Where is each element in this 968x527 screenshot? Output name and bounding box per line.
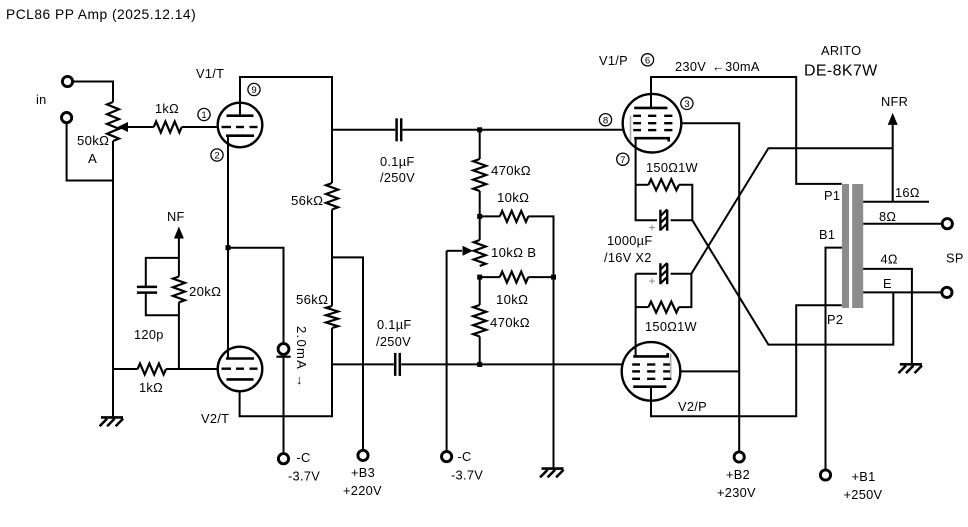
label 10kΩ B [491, 245, 536, 260]
svg-text:P1: P1 [824, 188, 840, 203]
pentode V1/P [623, 94, 682, 153]
wire V1/P cathode down [635, 138, 637, 185]
svg-text:ARITO: ARITO [821, 43, 861, 58]
svg-text:470kΩ: 470kΩ [491, 163, 531, 178]
pin 9 [248, 83, 260, 96]
pin 7 [617, 153, 629, 166]
wire ground rail to R2 [113, 368, 138, 370]
label +B2 +230V [717, 467, 756, 500]
svg-text:-3.7V: -3.7V [451, 468, 483, 483]
resistor 56kΩ (V1/T plate load) [326, 183, 338, 210]
svg-text:9: 9 [251, 85, 256, 96]
potentiometer 10kΩ B (balance) [474, 240, 486, 266]
pin 1 [198, 108, 210, 121]
wire 56k bottom to V2/T plate [240, 328, 332, 416]
svg-text:10kΩ B: 10kΩ B [491, 245, 536, 260]
svg-text:230V: 230V [675, 59, 706, 74]
wire V2 plate node to C2 [332, 363, 394, 365]
label 0.1µF /250V [380, 154, 415, 185]
svg-text:P2: P2 [827, 312, 843, 327]
wiper arrow of VR1 [118, 122, 154, 132]
pin 8 [599, 114, 611, 127]
svg-text:PCL86 PP Amp (2025.12.14): PCL86 PP Amp (2025.12.14) [6, 7, 196, 22]
label ARITO DE-8K7W [804, 43, 878, 80]
pentode V2/P [622, 342, 681, 401]
terminal -C (output bias) [442, 452, 452, 462]
svg-text:-C: -C [458, 449, 472, 464]
terminal +B2 [734, 452, 744, 462]
svg-text:1000µF: 1000µF [607, 233, 652, 248]
wire volume bottom to ground [112, 141, 114, 418]
label 150Ω1W [646, 160, 699, 175]
label 10kΩ [497, 190, 529, 205]
wire wiper to -C terminal [446, 251, 448, 452]
terminal SP return [942, 287, 952, 297]
resistor 56kΩ (V2/T plate load) [326, 306, 338, 328]
svg-text:3: 3 [684, 99, 689, 110]
label V1/T [196, 66, 224, 81]
wire 56k junction to +B3 [332, 210, 363, 451]
svg-text:NF: NF [167, 209, 185, 224]
wire C2 to V2/P grid [401, 363, 623, 365]
label V1/P [599, 53, 628, 68]
label 1kΩ [155, 101, 179, 116]
label 56kΩ [296, 292, 328, 307]
label 50kΩ A [77, 133, 109, 166]
node C2/470k junction [477, 362, 482, 367]
resistor R2 1kΩ [138, 364, 166, 375]
label 470kΩ [490, 315, 530, 330]
label 120p [134, 327, 164, 342]
wire V1 plate node to C1 [332, 129, 395, 131]
svg-text:20kΩ: 20kΩ [189, 284, 221, 299]
svg-text:7: 7 [620, 155, 625, 166]
transformer ARITO DE-8K7W core [842, 184, 863, 308]
svg-text:DE-8K7W: DE-8K7W [804, 63, 878, 80]
label -C -3.7V [451, 449, 483, 483]
svg-text:-C: -C [297, 450, 311, 465]
wire meter to -C terminal [283, 357, 285, 454]
wire R2 to V2/T grid [166, 368, 218, 370]
wire V1/T plate to 56k node [240, 77, 332, 183]
label P2 [827, 312, 843, 327]
triode V1/T [218, 103, 263, 148]
svg-text:+B1: +B1 [852, 469, 876, 484]
svg-text:1kΩ: 1kΩ [155, 101, 179, 116]
svg-text:+230V: +230V [717, 485, 756, 500]
svg-text:1kΩ: 1kΩ [139, 380, 163, 395]
resistor 470kΩ (V1/P grid) [473, 130, 486, 240]
label 4Ω [881, 252, 898, 267]
label NFR [881, 94, 908, 109]
svg-text:2: 2 [214, 151, 219, 162]
wire V1/P screen to +B2 bus [681, 123, 739, 452]
capacitor 120p (NFB) [137, 258, 179, 315]
resistor 470kΩ (V2/P grid) [473, 277, 486, 364]
wire B1 tap to +B1 terminal [826, 248, 843, 470]
svg-text:+B3: +B3 [351, 465, 375, 480]
terminal -C (driver bias) [278, 454, 288, 464]
label 470kΩ [491, 163, 531, 178]
wire 4Ω tap to ground [863, 269, 912, 364]
NFR arrow [888, 113, 898, 202]
resistor 10kΩ (upper) [480, 211, 554, 277]
label 2.0mA [294, 326, 309, 389]
label -C -3.7V [288, 450, 320, 484]
svg-text:+220V: +220V [343, 483, 382, 498]
label 150Ω1W [645, 319, 698, 334]
label 8Ω [879, 209, 896, 224]
ground (input) [100, 417, 124, 426]
wire V2/P cathode to 16Ω tap (cross diagonal) [691, 148, 892, 274]
svg-text:150Ω1W: 150Ω1W [646, 160, 699, 175]
wire V2/P cathode up [635, 307, 637, 356]
svg-text:+B2: +B2 [726, 467, 750, 482]
resistor 150Ω1W (V1/P cathode) [636, 179, 693, 220]
capacitor C2 0.1µF/250V [395, 353, 400, 376]
svg-text:V1/T: V1/T [196, 66, 224, 81]
label 230V 30mA [675, 59, 760, 74]
wire common cathodes [228, 136, 284, 359]
node 470k/10k [477, 214, 482, 219]
svg-text:470kΩ: 470kΩ [490, 315, 530, 330]
svg-text:/16V X2: /16V X2 [604, 250, 652, 265]
wire J2 to volume bottom [67, 122, 113, 180]
meter jack 2.0mA [276, 344, 290, 357]
svg-text:150Ω1W: 150Ω1W [645, 319, 698, 334]
capacitor 1000µF (V2/P cathode bypass) [636, 263, 692, 307]
svg-text:56kΩ: 56kΩ [296, 292, 328, 307]
ground (bias network) [540, 469, 564, 478]
label + polarity [649, 274, 656, 288]
capacitor 1000µF (V1/P cathode bypass) [636, 185, 693, 231]
svg-text:NFR: NFR [881, 94, 908, 109]
wire 16Ω tap [863, 201, 929, 203]
resistor R1 1kΩ [154, 122, 182, 133]
potentiometer VR1 50kΩ A [107, 102, 119, 141]
resistor 150Ω1W (V2/P cathode) [636, 274, 692, 313]
NF feedback arrow [174, 227, 184, 258]
label + polarity [649, 221, 656, 235]
svg-text:V2/T: V2/T [201, 411, 229, 426]
svg-text:8: 8 [603, 115, 608, 126]
wire V1/P plate to transformer P1 [651, 77, 842, 184]
svg-text:8Ω: 8Ω [879, 209, 896, 224]
label 20kΩ [189, 284, 221, 299]
wiper arrow of balance pot [447, 246, 473, 256]
label 16Ω [895, 185, 920, 200]
label 0.1µF /250V [376, 317, 411, 349]
wire V2/P screen to +B2 bus [680, 370, 739, 372]
triode V2/T [218, 347, 263, 392]
svg-text:+250V: +250V [844, 487, 883, 502]
wire V2/P plate to transformer P2 [651, 305, 842, 416]
svg-text:50kΩ: 50kΩ [77, 133, 109, 148]
svg-text:4Ω: 4Ω [881, 252, 898, 267]
capacitor C1 0.1µF/250V [397, 118, 402, 141]
terminal SP hot [942, 219, 952, 229]
svg-text:/250V: /250V [380, 170, 415, 185]
svg-text:←30mA: ←30mA [712, 59, 760, 74]
resistor 10kΩ (lower) [480, 272, 554, 283]
node cathode junction [226, 245, 231, 250]
label +B3 +220V [343, 465, 382, 498]
node 10k/ground bus [551, 275, 556, 280]
label P1 [824, 188, 840, 203]
pin 2 [211, 149, 223, 162]
svg-text:2.0mA →: 2.0mA → [294, 326, 309, 389]
svg-text:0.1µF: 0.1µF [380, 154, 414, 169]
svg-text:+: + [649, 274, 656, 288]
svg-text:-3.7V: -3.7V [288, 469, 320, 484]
wire 10k common to ground [553, 277, 555, 469]
svg-text:10kΩ: 10kΩ [496, 292, 528, 307]
node C1/470k junction [477, 127, 482, 132]
label in [36, 92, 47, 107]
label 1000µF /16V X2 [604, 233, 652, 265]
svg-text:E: E [883, 276, 892, 291]
svg-text:SP: SP [946, 251, 964, 266]
wire E tap to SP terminal [863, 291, 942, 293]
wire V1/P cathode to E tap (cross diagonal) [692, 220, 893, 344]
svg-text:/250V: /250V [376, 334, 411, 349]
svg-text:56kΩ: 56kΩ [291, 193, 323, 208]
wire C1 to V1/P grid [403, 129, 623, 131]
label +B1 +250V [844, 469, 883, 502]
label 56kΩ [291, 193, 323, 208]
label 1kΩ [139, 380, 163, 395]
label NF [167, 209, 185, 224]
wire R1 to V1/T grid [182, 126, 218, 128]
label SP [946, 251, 964, 266]
svg-text:1: 1 [201, 110, 206, 121]
svg-text:V2/P: V2/P [678, 399, 707, 414]
ground (speaker common) [899, 364, 923, 373]
resistor 20kΩ (NFB) [173, 258, 185, 369]
terminal +B1 [820, 470, 830, 480]
label E [883, 276, 892, 291]
svg-text:in: in [36, 92, 47, 107]
pin 3 [681, 97, 693, 110]
label 10kΩ [496, 292, 528, 307]
node pot/10k lower [477, 275, 482, 280]
svg-text:10kΩ: 10kΩ [497, 190, 529, 205]
svg-text:120p: 120p [134, 327, 164, 342]
label V2/T [201, 411, 229, 426]
pin 6 [641, 54, 653, 67]
svg-text:V1/P: V1/P [599, 53, 628, 68]
svg-text:0.1µF: 0.1µF [377, 317, 411, 332]
terminal +B3 [358, 450, 368, 460]
svg-text:B1: B1 [819, 227, 835, 242]
label B1 [819, 227, 835, 242]
svg-text:6: 6 [645, 55, 650, 66]
label V2/P [678, 399, 707, 414]
wire J1 to volume top [72, 82, 113, 103]
title [6, 7, 196, 22]
input jack J1 (hot) [62, 76, 72, 86]
input jack J2 (cold) [62, 113, 72, 123]
wire 8Ω tap to SP terminal [863, 223, 942, 225]
svg-text:16Ω: 16Ω [895, 185, 920, 200]
svg-text:A: A [88, 151, 97, 166]
